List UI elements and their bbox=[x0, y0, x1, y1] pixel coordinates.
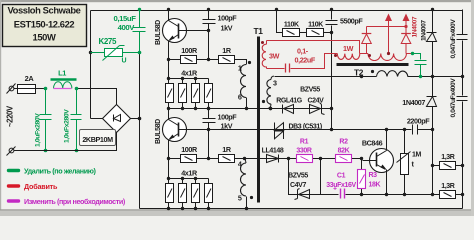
red capacitor 0,1-0,22uF in feedback loop bbox=[267, 54, 338, 73]
resistor network 4x1R lower (4 parallel) bbox=[166, 177, 213, 209]
svg-text:3: 3 bbox=[273, 79, 277, 88]
red bus wire to arrows bbox=[367, 26, 407, 28]
svg-text:4: 4 bbox=[238, 160, 242, 169]
node output line / ignitor column junction bbox=[431, 75, 434, 78]
svg-text:BC846: BC846 bbox=[362, 138, 383, 147]
svg-text:T2: T2 bbox=[354, 67, 364, 77]
svg-text:150W: 150W bbox=[33, 32, 56, 43]
svg-text:5500pF: 5500pF bbox=[340, 16, 363, 25]
wire bottom rail DC- y=208.6 bbox=[140, 208, 463, 210]
wire AC top from L1 to bridge top vertex bbox=[77, 89, 117, 105]
wire AC bottom to bridge bottom vertex bbox=[17, 133, 117, 151]
svg-text:100pF: 100pF bbox=[218, 14, 238, 23]
wire control common row y=194 bbox=[321, 194, 463, 196]
svg-text:1N4007: 1N4007 bbox=[412, 16, 419, 37]
capacitor 1,0uFx280V #1 (green) bbox=[40, 89, 52, 151]
svg-text:1,0uFx280V: 1,0uFx280V bbox=[35, 113, 42, 147]
svg-text:0,15uF: 0,15uF bbox=[114, 14, 137, 23]
red 1W phase dot bbox=[334, 54, 337, 57]
svg-text:400V: 400V bbox=[118, 23, 136, 32]
svg-text:Изменить (при необходимости): Изменить (при необходимости) bbox=[24, 197, 126, 206]
node green junction AC top left bbox=[44, 87, 48, 91]
wire Q2 base line y=129.6 to diac row bbox=[179, 129, 433, 131]
svg-text:82K: 82K bbox=[338, 148, 350, 155]
bridge label box 2KBP10M bbox=[80, 130, 116, 146]
red added winding 1W on T2 core bbox=[337, 54, 360, 60]
svg-text:1W: 1W bbox=[343, 44, 354, 53]
capacitor 100pF 1kV upper bbox=[203, 8, 216, 61]
wire startup column x=331.5 (row1 end down to diac row) bbox=[331, 109, 333, 130]
svg-text:2200pF: 2200pF bbox=[407, 116, 430, 125]
svg-text:T1: T1 bbox=[254, 26, 264, 36]
svg-text:1,3R: 1,3R bbox=[441, 183, 455, 190]
wire mid rail (half-bridge midpoint) y=108.7 bbox=[169, 108, 332, 110]
inductor L1 (green, to delete) with magenta jumper bbox=[51, 80, 77, 89]
wire top rail DC+ y=10 bbox=[91, 10, 463, 12]
svg-text:3W: 3W bbox=[269, 52, 280, 61]
node Q1 collector on top rail bbox=[167, 8, 170, 11]
red added winding 3W on T1 core bbox=[262, 41, 266, 69]
svg-text:2A: 2A bbox=[25, 74, 35, 83]
fuse F 2A bbox=[17, 85, 46, 94]
svg-text:100R: 100R bbox=[181, 46, 198, 55]
green capacitor at T2 output (to delete) bbox=[411, 52, 427, 78]
capacitor 0,15uF 400V (green, to delete) bbox=[133, 8, 146, 55]
svg-text:U: U bbox=[122, 58, 127, 65]
resistor 100R upper bbox=[181, 56, 197, 64]
T1 winding 4-5 phase dot bbox=[250, 196, 253, 199]
svg-text:1,3R: 1,3R bbox=[441, 154, 455, 161]
svg-text:BUL58D: BUL58D bbox=[155, 119, 162, 144]
red arrow output (winding tap) bbox=[385, 14, 392, 56]
svg-text:1R: 1R bbox=[222, 46, 232, 55]
svg-text:0,1-: 0,1- bbox=[297, 47, 309, 56]
wire BZV55 branch left x=288.3 bbox=[289, 159, 321, 195]
svg-text:BUL58D: BUL58D bbox=[155, 20, 162, 45]
transistor Q2 BUL58D lower bbox=[163, 109, 187, 179]
svg-text:C24V: C24V bbox=[308, 97, 325, 104]
svg-text:0,22uF: 0,22uF bbox=[295, 56, 316, 65]
T2 primary winding (black, on output line) bbox=[377, 71, 408, 77]
diode RGL41G row1 bbox=[283, 105, 294, 114]
red 3W phase dot bbox=[261, 41, 264, 44]
transformer T1 core bbox=[257, 37, 260, 203]
varistor K275 (green, to delete) bbox=[91, 46, 140, 61]
svg-text:1M: 1M bbox=[412, 152, 421, 159]
wire DC+ left column x=91 bbox=[90, 11, 92, 119]
svg-text:EST150-12.622: EST150-12.622 bbox=[14, 18, 75, 29]
wire startup column x=331.5 (rail to 110K node to diac row) bbox=[331, 10, 333, 109]
node green junction AC top right bbox=[75, 87, 79, 91]
svg-text:4x1R: 4x1R bbox=[181, 69, 198, 78]
red wire top of feedback loop y=40.8 bbox=[267, 41, 360, 54]
capacitor C1 33uFx16V (magenta electrolytic) bbox=[333, 186, 345, 199]
node winding3/row1 junction and row1 end corner bbox=[269, 107, 272, 110]
svg-text:R2: R2 bbox=[339, 139, 348, 146]
svg-text:1N4007: 1N4007 bbox=[421, 20, 428, 41]
svg-text:LL4148: LL4148 bbox=[262, 148, 284, 155]
node bottom rail junctions bbox=[167, 207, 170, 210]
svg-text:1R: 1R bbox=[222, 145, 232, 154]
transformer T2 core bbox=[337, 63, 409, 66]
T1 winding 1-6 phase dot bbox=[248, 61, 251, 64]
svg-text:R3: R3 bbox=[369, 172, 378, 179]
svg-text:K275: K275 bbox=[99, 37, 117, 46]
svg-text:110K: 110K bbox=[284, 22, 299, 29]
wire Q2 emitter row y=158.4 bbox=[169, 158, 362, 160]
red arrow output (bus) bbox=[403, 14, 410, 27]
svg-text:1kV: 1kV bbox=[221, 24, 233, 33]
resistor 1R lower bbox=[219, 155, 235, 163]
capacitor 0,047uFx400V #2 (right rail lower) bbox=[457, 96, 468, 102]
red secondary winding on T2 (added) bbox=[360, 54, 414, 61]
T1 winding 1-6 (upper base drive Q1) bbox=[241, 65, 249, 111]
svg-text:BZV55: BZV55 bbox=[288, 173, 308, 180]
svg-text:100pF: 100pF bbox=[218, 113, 238, 122]
page border frame bbox=[0, 0, 474, 2]
svg-text:18K: 18K bbox=[369, 182, 381, 189]
legend green: delete (optional) bbox=[9, 166, 97, 175]
wire 110K riser x=276.5 bbox=[277, 10, 332, 33]
diode 1N4007 #2 (below output line) bbox=[425, 97, 439, 107]
node green junction AC bottom right bbox=[75, 149, 79, 153]
resistor 110K #2 bbox=[307, 29, 324, 37]
T1 winding 3 phase dot bbox=[262, 100, 265, 103]
bridge rectifier 2KBP10M diamond bbox=[91, 105, 140, 133]
node BC846 emitter on common row bbox=[385, 193, 388, 196]
transistor Q1 BUL58D upper bbox=[163, 10, 209, 79]
diode 1N4007 #1 (top, on column) bbox=[425, 10, 439, 42]
capacitor 5500pF on startup column bbox=[326, 20, 338, 26]
resistor 1,3R lower (on common row) bbox=[431, 191, 464, 199]
svg-text:R1: R1 bbox=[300, 139, 309, 146]
svg-text:1kV: 1kV bbox=[221, 122, 233, 131]
legend red: add bbox=[9, 182, 58, 191]
svg-text:Удалить (по желанию): Удалить (по желанию) bbox=[24, 166, 96, 175]
T1 winding 4-5 (lower base drive Q2) bbox=[241, 157, 249, 210]
capacitor 100pF 1kV lower bbox=[203, 107, 216, 160]
svg-text:BZV55: BZV55 bbox=[300, 87, 320, 94]
node red bus junction bbox=[404, 25, 407, 28]
svg-text:C4V7: C4V7 bbox=[290, 182, 306, 189]
T1 winding 3 (feedback to lamp line) bbox=[267, 76, 274, 110]
node Q2 emitter/100R junction bbox=[167, 157, 170, 160]
node mid rail junctions bbox=[167, 107, 170, 110]
svg-text:DB3 (C531): DB3 (C531) bbox=[289, 123, 322, 130]
svg-text:RGL41G: RGL41G bbox=[276, 97, 303, 104]
svg-text:110K: 110K bbox=[308, 22, 323, 29]
svg-text:5: 5 bbox=[238, 194, 242, 203]
zener C24V row1 bbox=[310, 103, 325, 115]
svg-text:C1: C1 bbox=[337, 173, 346, 180]
svg-text:Vossloh Schwabe: Vossloh Schwabe bbox=[7, 5, 80, 16]
red secondary phase dot bbox=[368, 54, 371, 57]
thermistor 1M t (vertical with strike) bbox=[397, 128, 411, 196]
zener BZV55 C4V7 on lower row bbox=[295, 189, 310, 200]
svg-text:1N4007: 1N4007 bbox=[402, 98, 425, 107]
svg-text:100R: 100R bbox=[181, 145, 198, 154]
wire right rail x=462 bbox=[462, 10, 464, 209]
capacitor 0,047uFx400V #1 (right rail upper) bbox=[457, 35, 468, 41]
resistor network 4x1R upper (4 parallel) bbox=[166, 77, 213, 109]
diac DB3 (C531) on base row bbox=[275, 123, 284, 140]
terminal plug upper ~220V bbox=[7, 84, 17, 94]
node Q1 emitter/100R junction bbox=[167, 58, 170, 61]
resistor 100R lower bbox=[181, 155, 197, 163]
resistor R1 330R (magenta) bbox=[297, 155, 313, 163]
wire DC- column x=139.3 (bridge minus to bottom rail) bbox=[139, 53, 141, 209]
svg-text:Добавить: Добавить bbox=[24, 182, 58, 191]
svg-text:~220V: ~220V bbox=[5, 105, 14, 127]
terminal plug lower ~220V bbox=[7, 147, 17, 156]
node output line junctions bbox=[360, 75, 363, 78]
transistor Q3 BC846 bbox=[363, 130, 394, 195]
capacitor 2200pF on base row bbox=[412, 125, 418, 135]
title box Vossloh Schwabe EST150-12.622 150W bbox=[3, 5, 87, 47]
node emitter row junctions bbox=[287, 157, 290, 160]
resistor R2 82K (magenta) bbox=[336, 155, 352, 163]
node base row junctions bbox=[385, 128, 388, 131]
red diode D1 1N4007 (added) bbox=[362, 27, 372, 54]
node green junction AC bottom left bbox=[44, 149, 48, 153]
svg-text:330R: 330R bbox=[296, 148, 311, 155]
svg-text:1,0uFx280V: 1,0uFx280V bbox=[64, 109, 71, 143]
wire ignitor column x=432 top rail to common row bbox=[432, 10, 434, 195]
node junction DC- column at bridge right vertex bbox=[138, 117, 142, 121]
node junction bridge plus on left column bbox=[89, 51, 92, 54]
resistor 1R upper bbox=[219, 56, 235, 64]
legend magenta: change (if needed) bbox=[9, 197, 126, 206]
svg-text:1: 1 bbox=[238, 64, 242, 73]
T2 primary phase dot bbox=[371, 70, 374, 73]
resistor R3 18K (magenta, vertical) bbox=[358, 159, 366, 197]
svg-text:2KBP10M: 2KBP10M bbox=[82, 135, 113, 144]
wire lamp output line y=75.8 bbox=[275, 76, 377, 78]
red diode D2 1N4007 (added) bbox=[401, 27, 411, 54]
svg-text:0,047uFx400V: 0,047uFx400V bbox=[450, 19, 457, 59]
wire Q1 base row y=59.5 bbox=[169, 60, 247, 65]
svg-text:4x1R: 4x1R bbox=[181, 169, 198, 178]
resistor 110K #1 bbox=[283, 29, 300, 37]
svg-text:6: 6 bbox=[238, 93, 242, 102]
resistor 1,3R upper bbox=[431, 162, 464, 170]
capacitor 1,0uFx280V #2 (green) bbox=[71, 89, 82, 151]
diode LL4148 on emitter row bbox=[267, 155, 279, 163]
svg-text:33uFx16V: 33uFx16V bbox=[326, 182, 356, 189]
svg-text:0,047uFx400V: 0,047uFx400V bbox=[450, 78, 457, 118]
svg-text:L1: L1 bbox=[58, 69, 66, 78]
